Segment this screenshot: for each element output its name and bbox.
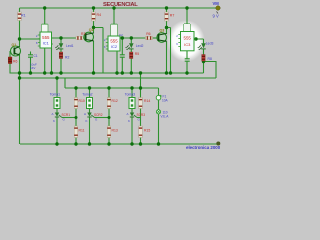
- wire SCR3 column: [131, 88, 133, 144]
- wire bottom rail: [20, 143, 218, 145]
- wire IC3 top tent: [184, 8, 190, 32]
- svg-text:IC2: IC2: [111, 44, 118, 49]
- resistor R6 base: [8, 57, 12, 64]
- wire Led1 to R2: [60, 49, 62, 52]
- svg-text:C2: C2: [119, 33, 123, 37]
- wire cap C1 branch: [30, 52, 32, 74]
- svg-text:A: A: [52, 112, 54, 116]
- junction (93.5,73): [92, 71, 95, 74]
- wire R3 to Q2 base: [83, 37, 85, 39]
- svg-text:Led2: Led2: [136, 44, 144, 48]
- svg-text:10A: 10A: [162, 98, 169, 102]
- op-amp IC2 555: [104, 25, 120, 52]
- junction (93.5,27.5): [92, 26, 95, 29]
- capacitor C2 plates: [120, 55, 125, 57]
- svg-text:16V: 16V: [30, 66, 35, 70]
- svg-text:Q2: Q2: [89, 28, 94, 32]
- svg-text:A: A: [127, 112, 129, 116]
- wire IC1 right lower pin down: [51, 48, 53, 73]
- svg-text:R4: R4: [97, 13, 102, 17]
- junction (19.5,39): [18, 37, 21, 40]
- resistor R3: [76, 36, 83, 39]
- transistor Q1: [11, 46, 21, 56]
- svg-text:555: 555: [110, 39, 118, 44]
- svg-text:R6: R6: [13, 59, 17, 63]
- junction (44.7,73): [43, 71, 46, 74]
- battery terminal bottom: [216, 142, 220, 146]
- wire R4 top: [93, 8, 95, 12]
- resistor R1: [18, 12, 22, 21]
- junction (109,144): [107, 142, 110, 145]
- socket Toma1: [54, 98, 60, 109]
- svg-text:Q1: Q1: [12, 43, 17, 47]
- resistor R10: [74, 98, 78, 109]
- svg-text:C1: C1: [34, 54, 38, 58]
- svg-text:Toma1: Toma1: [50, 93, 60, 97]
- svg-text:R2: R2: [65, 56, 69, 60]
- junction (57,144): [55, 142, 58, 145]
- svg-text:R3: R3: [81, 32, 85, 36]
- wire R6 to ground bus: [9, 64, 11, 74]
- resistor R4: [92, 12, 96, 21]
- svg-text:SCR2: SCR2: [94, 113, 103, 117]
- junction (166.5,73): [165, 71, 168, 74]
- junction (166.5,8): [165, 6, 168, 9]
- wire R14 column from bus: [140, 73, 142, 144]
- svg-text:R8: R8: [208, 57, 212, 61]
- thyristor SCR1: [55, 113, 62, 118]
- svg-text:9 V: 9 V: [213, 14, 219, 19]
- thyristor SCR2: [87, 113, 94, 118]
- junction (132,88): [130, 86, 133, 89]
- svg-text:555: 555: [42, 35, 50, 40]
- svg-text:V.E.A: V.E.A: [161, 114, 170, 118]
- wire IC2 output: [120, 37, 153, 39]
- junction (166.5,27.5): [165, 26, 168, 29]
- battery terminal VM: [216, 6, 220, 10]
- wire Q2 emitter down: [93, 41, 95, 73]
- resistor R14: [139, 98, 143, 109]
- wire node A to IC1 left: [20, 38, 41, 40]
- wire R7 top: [166, 8, 168, 12]
- svg-text:Q3: Q3: [160, 29, 165, 33]
- wire fuse column: [158, 88, 160, 144]
- svg-text:555: 555: [184, 36, 192, 41]
- wire SCR2 column: [89, 88, 91, 144]
- junction (19.5,73): [18, 71, 21, 74]
- wire IC2 bottom pin: [116, 51, 118, 73]
- resistor R13: [107, 126, 111, 138]
- fuse F1: [156, 95, 161, 100]
- junction (44.7,8): [43, 6, 46, 9]
- capacitor C3 plates: [185, 59, 190, 61]
- junction (187,8): [185, 6, 188, 9]
- svg-text:K: K: [86, 119, 88, 123]
- junction (93.5,8): [92, 6, 95, 9]
- resistor R2: [59, 52, 62, 59]
- junction (158.5,144): [157, 142, 160, 145]
- junction (76,88): [74, 86, 77, 89]
- junction (140.5,73): [139, 71, 142, 74]
- svg-text:R7: R7: [170, 14, 175, 18]
- junction (61,73): [59, 71, 62, 74]
- junction (122.3,38): [121, 36, 124, 39]
- junction (76,118): [75, 116, 78, 119]
- resistor R12: [107, 98, 111, 109]
- svg-text:Led3: Led3: [206, 41, 214, 45]
- svg-text:K: K: [128, 119, 130, 123]
- transistor Q2: [84, 32, 94, 42]
- socket Toma2: [87, 98, 93, 109]
- wire IC2 top tent: [111, 8, 117, 36]
- wire node C to IC3 trigger: [167, 28, 171, 74]
- wire Led2 branch: [130, 38, 132, 73]
- wire IC1 bottom pin to bus: [44, 48, 46, 73]
- svg-text:R6: R6: [146, 32, 150, 36]
- resistor R7: [165, 12, 169, 21]
- svg-text:IC3: IC3: [184, 42, 191, 47]
- wire cap C2 branch: [121, 38, 123, 73]
- wire IC1 output: [52, 37, 77, 39]
- resistor R6h: [146, 36, 153, 39]
- junction (203.5,61.5): [202, 60, 205, 63]
- wire top power rail: [20, 7, 219, 9]
- junction (114,8): [112, 6, 115, 9]
- wire R7 to node C: [166, 21, 168, 34]
- wire IC1 top tent: [42, 8, 48, 32]
- LED Led2: [125, 43, 133, 50]
- svg-text:R12: R12: [112, 99, 118, 103]
- wire node B to IC2 trigger: [94, 28, 104, 74]
- svg-text:SCR3: SCR3: [137, 113, 146, 117]
- svg-text:R13: R13: [112, 129, 118, 133]
- resistor R11: [74, 126, 78, 138]
- wire step y78-y88: [64, 78, 66, 88]
- resistor R8: [202, 55, 205, 62]
- switch S1: [156, 110, 160, 114]
- wire right loop up: [204, 62, 217, 79]
- wire Q3 emitter down: [166, 41, 168, 73]
- wire SCR3 gate: [137, 117, 141, 119]
- wire ground bus y73: [10, 72, 204, 74]
- junction (131.3,73): [130, 71, 133, 74]
- junction (131.3,38): [130, 36, 133, 39]
- svg-text:R11: R11: [79, 129, 85, 133]
- wire Led1 branch: [60, 38, 62, 43]
- wire SCR1 gate: [62, 117, 76, 119]
- svg-text:R14: R14: [144, 99, 150, 103]
- LED Led1: [55, 43, 63, 50]
- junction (196,39): [194, 37, 197, 40]
- wire Led3 to R8: [203, 49, 205, 55]
- resistor R5: [130, 52, 133, 59]
- op-amp IC1 555: [36, 25, 53, 49]
- junction (89.5,88): [88, 86, 91, 89]
- junction (109,118): [108, 116, 111, 119]
- junction (57,78): [55, 76, 58, 79]
- wire Q1 base lead: [10, 50, 14, 52]
- wire SCR2 gate: [95, 117, 110, 119]
- op-amp IC3 555: [176, 24, 196, 51]
- socket Toma3: [129, 98, 135, 109]
- wire R2 to bus: [60, 59, 62, 74]
- junction (109,88): [107, 86, 110, 89]
- junction (30.5,73): [29, 71, 32, 74]
- thyristor SCR3: [130, 113, 137, 118]
- svg-text:R10: R10: [79, 99, 85, 103]
- wire bus y88: [65, 87, 159, 89]
- wire SCR1 column: [56, 78, 58, 144]
- svg-text:Toma2: Toma2: [82, 93, 92, 97]
- junction (117,73): [115, 71, 118, 74]
- transistor Q3: [157, 33, 167, 43]
- svg-text:A: A: [84, 112, 86, 116]
- junction (19.5,78): [18, 76, 21, 79]
- svg-text:electronica 2000: electronica 2000: [186, 145, 221, 150]
- svg-text:IC1: IC1: [43, 41, 50, 46]
- wire ground bus y78: [20, 77, 217, 79]
- svg-text:R15: R15: [144, 129, 150, 133]
- highlight glow around IC3: [167, 20, 205, 62]
- wire R6h to Q3 base: [153, 37, 159, 39]
- svg-text:SECUENCIAL: SECUENCIAL: [103, 2, 138, 8]
- junction (122.3,73): [121, 71, 124, 74]
- wire R10 column: [75, 88, 77, 144]
- svg-text:R5: R5: [135, 52, 139, 56]
- capacitor C1 plates: [28, 55, 33, 57]
- svg-text:Toma3: Toma3: [125, 93, 135, 97]
- junction (132,144): [130, 142, 133, 145]
- wire Q1 emitter down left rail to bottom: [19, 55, 21, 145]
- junction (51.5,73): [50, 71, 53, 74]
- wire IC3 output: [194, 39, 204, 43]
- wire IC3 bottom pin: [186, 51, 188, 73]
- resistor R15: [139, 126, 143, 138]
- wire R12 column: [108, 88, 110, 144]
- wire R8 to bus end: [203, 61, 205, 73]
- junction (187,73): [185, 71, 188, 74]
- svg-text:K: K: [53, 119, 55, 123]
- svg-text:VM: VM: [213, 1, 220, 6]
- junction (140.5,144): [139, 142, 142, 145]
- wire left rail top to R1: [19, 8, 21, 12]
- junction (89.5,144): [88, 142, 91, 145]
- junction (140.5,88): [139, 86, 142, 89]
- LED Led3: [197, 43, 205, 50]
- junction (61,38): [59, 36, 62, 39]
- svg-text:R1: R1: [21, 14, 26, 18]
- svg-text:SCR1: SCR1: [62, 113, 71, 117]
- wire R1 to Q1 collector node: [19, 21, 21, 48]
- junction (76,144): [74, 142, 77, 145]
- wire R4 to node B: [93, 21, 95, 34]
- svg-text:Led1: Led1: [66, 44, 74, 48]
- wire Q1 base to R6: [9, 51, 11, 57]
- junction (170.5,73): [169, 71, 172, 74]
